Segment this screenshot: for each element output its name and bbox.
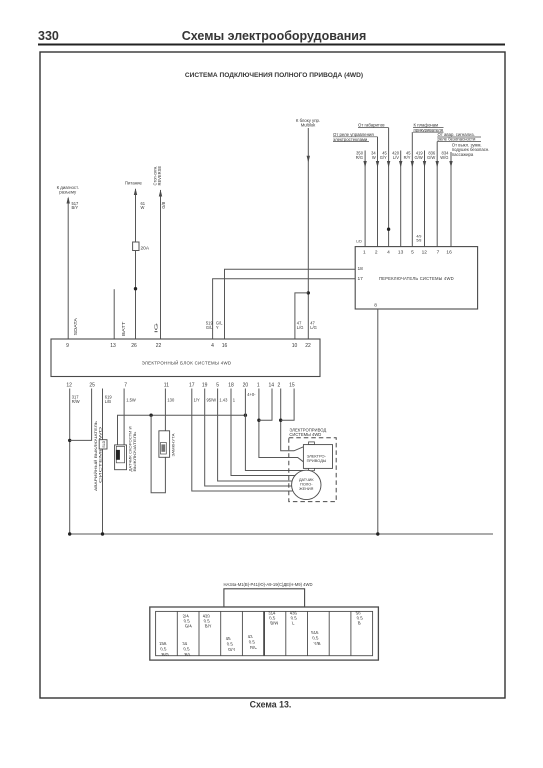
svg-text:9: 9 bbox=[66, 343, 69, 349]
ECU bottom pin 14 bbox=[269, 383, 275, 389]
svg-text:22: 22 bbox=[305, 343, 311, 349]
connector cell divider 3 bbox=[220, 611, 222, 655]
svg-text:BATT: BATT bbox=[121, 321, 126, 336]
schematic border frame bbox=[40, 52, 505, 698]
switch pin 1 bbox=[363, 250, 366, 256]
ECU bottom pin 19 bbox=[202, 383, 208, 389]
wire from 4WD switch pin18 to ECU pin16 bbox=[225, 269, 356, 339]
shield connector SLD box bbox=[99, 440, 107, 449]
connector cell divider 5 (thick) bbox=[263, 611, 265, 655]
wire pin9 SDATA (diagnostic) bbox=[67, 198, 69, 339]
svg-text:SDATA: SDATA bbox=[73, 317, 78, 336]
switch pin 17 bbox=[358, 276, 364, 282]
svg-text:Multilok: Multilok bbox=[301, 122, 316, 127]
caption Схема 13. bbox=[250, 700, 292, 710]
label: К диагност. разъему bbox=[57, 185, 79, 195]
wire to pin22 right (from control unit) bbox=[307, 128, 309, 339]
value label 130 (pin11) bbox=[167, 398, 175, 403]
svg-text:17: 17 bbox=[358, 276, 364, 282]
svg-text:5: 5 bbox=[411, 250, 414, 256]
svg-text:G/W: G/W bbox=[415, 155, 423, 160]
label: К блоку упр. Multilok bbox=[296, 118, 320, 128]
cell2 top value 2/4 0.5 G/4 bbox=[182, 614, 193, 629]
value label 834 W/G bbox=[440, 151, 449, 160]
wire ECU pin5 to position sensor bbox=[218, 389, 293, 482]
label: Стоп-сигнал REVERSE (rotated) bbox=[153, 166, 163, 186]
switch pin 4 bbox=[387, 250, 390, 256]
svg-text:26: 26 bbox=[131, 343, 137, 349]
arrow down on control unit wire bbox=[307, 156, 310, 163]
value label 317 R/W (pin12) bbox=[72, 395, 80, 404]
position sensor circle ДАТЧИК ПОЛОЖЕНИЯ bbox=[292, 470, 321, 499]
cell3 top value 420 0.5 B/Y bbox=[202, 614, 213, 629]
cell8 value 516 0.5 Y/B bbox=[311, 630, 322, 646]
svg-text:Y: Y bbox=[216, 325, 219, 330]
svg-text:W: W bbox=[372, 155, 376, 160]
wire ECU pin25 joins pin12 bbox=[70, 389, 92, 441]
wire F to switch pin12 bbox=[423, 151, 426, 247]
label ДАТЧИК СКОРОСТИ И ВЫКЛЮЧАТЕЛЬ (rotated) bbox=[129, 426, 138, 471]
svg-text:R/G: R/G bbox=[356, 155, 363, 160]
svg-text:5/8: 5/8 bbox=[416, 238, 421, 242]
switch pin 7 bbox=[437, 250, 440, 256]
arrow up wire pin22 bbox=[159, 190, 162, 197]
svg-text:ЖЕНИЯ: ЖЕНИЯ bbox=[299, 487, 314, 491]
junction dot bus/pin11 branch bbox=[149, 414, 152, 417]
svg-text:ПРИВОДЫ: ПРИВОДЫ bbox=[307, 458, 327, 463]
value label 519 G/L (pin4) bbox=[206, 321, 214, 330]
svg-text:95/W: 95/W bbox=[207, 398, 217, 403]
svg-text:Схема 13.: Схема 13. bbox=[250, 700, 292, 710]
value label 45 R/Y bbox=[404, 151, 412, 160]
junction dot bus/pin20 bbox=[244, 414, 247, 417]
pin 22 bbox=[156, 343, 162, 349]
switch pin 12 bbox=[422, 250, 428, 256]
svg-text:1: 1 bbox=[363, 250, 366, 256]
wire ECU pin18 to position sensor bbox=[231, 389, 295, 476]
ECU box ЭЛЕКТРОННЫЙ БЛОК СИСТЕМЫ 4WD bbox=[51, 339, 320, 377]
arrow up wire pin26 bbox=[134, 188, 137, 195]
junction dot wire C bbox=[387, 228, 390, 231]
svg-text:12: 12 bbox=[422, 250, 428, 256]
svg-text:7: 7 bbox=[437, 250, 440, 256]
junction dot on wire pin26 bbox=[134, 287, 137, 290]
switch pin 2 bbox=[375, 250, 378, 256]
connector cell divider 6 bbox=[285, 611, 287, 655]
connector inner frame bbox=[156, 611, 373, 655]
junction dot pin12/pin25 bbox=[68, 439, 71, 442]
svg-text:REVERSE: REVERSE bbox=[157, 166, 162, 186]
connector cell divider 9 bbox=[350, 611, 352, 655]
svg-text:W: W bbox=[141, 205, 145, 210]
svg-text:От габаритов: От габаритов bbox=[358, 123, 385, 128]
wire from 4WD switch pin17 to ECU pin4 bbox=[213, 279, 356, 339]
connector cell divider 7 bbox=[307, 611, 309, 655]
header: От выкл. зуммера подушек безопасн. пассажира bbox=[452, 143, 490, 157]
svg-text:4: 4 bbox=[387, 250, 390, 256]
fuse 20A bbox=[133, 242, 150, 252]
label: Питание bbox=[125, 181, 143, 186]
label АВАРИЙНЫЙ ВЫКЛЮЧАТЕЛЬ СИСТЕМЫ 4WD (rotated) bbox=[94, 420, 103, 491]
ECU bottom pin 15 bbox=[289, 383, 295, 389]
svg-text:L/G: L/G bbox=[297, 325, 304, 330]
svg-text:L/G: L/G bbox=[310, 325, 317, 330]
value label 419 G/W bbox=[415, 151, 424, 160]
svg-text:14: 14 bbox=[269, 383, 275, 389]
harness label above connector bbox=[224, 582, 313, 587]
page number 330 bbox=[38, 29, 59, 43]
value label 47 L/G (pin22) bbox=[310, 321, 317, 330]
svg-text:B/Y: B/Y bbox=[72, 205, 79, 210]
net label IG (rotated) bbox=[153, 322, 158, 333]
svg-text:1.5W: 1.5W bbox=[126, 398, 136, 403]
svg-text:19: 19 bbox=[202, 383, 208, 389]
svg-text:20A: 20A bbox=[141, 246, 150, 252]
header: От реле управления электростеклами bbox=[333, 132, 378, 142]
svg-text:ДАТЧИК: ДАТЧИК bbox=[299, 478, 314, 482]
svg-text:реле безопасности: реле безопасности bbox=[438, 137, 476, 142]
value label L/D near switch pin1 bbox=[356, 239, 362, 243]
svg-text:22: 22 bbox=[156, 343, 162, 349]
ECU bottom pin 20 bbox=[243, 383, 249, 389]
header: От габаритов bbox=[358, 123, 389, 128]
pin 26 bbox=[131, 343, 137, 349]
wire ECU pin19 to position sensor bbox=[205, 389, 292, 487]
svg-text:G/B: G/B bbox=[161, 201, 166, 208]
wire E to switch pin5 bbox=[411, 132, 414, 247]
switch pin 5 bbox=[411, 250, 414, 256]
bus wire (pin20/pin11 common) bbox=[118, 415, 246, 445]
cell5 value 43 0.5 R/L bbox=[247, 634, 258, 650]
value label 61 W bbox=[141, 201, 146, 210]
value label 34 W bbox=[371, 151, 376, 160]
svg-text:1/Y: 1/Y bbox=[194, 398, 200, 403]
svg-text:13: 13 bbox=[398, 250, 404, 256]
junction dot rail/switch pin8 bbox=[376, 532, 379, 535]
svg-text:пассажира: пассажира bbox=[452, 152, 474, 157]
wire D to switch pin13 bbox=[399, 151, 402, 247]
wire pin22 IG bbox=[160, 190, 162, 339]
wire ECU pin1 to actuator motor bbox=[259, 389, 304, 462]
wire branch to pin 10 bbox=[295, 293, 308, 339]
svg-text:2: 2 bbox=[375, 250, 378, 256]
ECU bottom pin 17 bbox=[189, 383, 195, 389]
svg-text:7: 7 bbox=[124, 383, 127, 389]
cell1 value 158 0.5 B/G bbox=[159, 641, 170, 657]
value label 350 R/G bbox=[356, 151, 364, 160]
label ЗАМКНУТА (rotated) bbox=[172, 433, 176, 457]
svg-text:IG: IG bbox=[153, 322, 158, 333]
value label G/L Y (pin16) bbox=[216, 321, 223, 330]
svg-text:Схемы электрооборудования: Схемы электрооборудования bbox=[182, 29, 367, 43]
value label 4/9 5/8 near switch pin12 bbox=[416, 234, 421, 242]
svg-text:АВАРИЙНЫЙ ВЫКЛЮЧАТЕЛЬ: АВАРИЙНЫЙ ВЫКЛЮЧАТЕЛЬ bbox=[94, 420, 98, 491]
svg-text:L/B: L/B bbox=[105, 399, 111, 404]
junction dot rail/shield bbox=[101, 532, 104, 535]
wire H to switch pin16 bbox=[449, 152, 452, 247]
switch box ПЕРЕКЛЮЧАТЕЛЬ СИСТЕМЫ 4WD bbox=[355, 247, 477, 309]
svg-text:ВЫКЛЮЧАТЕЛЬ: ВЫКЛЮЧАТЕЛЬ bbox=[133, 431, 137, 472]
svg-text:130: 130 bbox=[167, 398, 175, 403]
svg-text:18: 18 bbox=[358, 266, 364, 272]
connector cell divider 2 bbox=[198, 611, 200, 655]
connector outer shell bbox=[150, 607, 379, 660]
svg-text:W/G: W/G bbox=[440, 155, 448, 160]
wire ECU pin12 to ground rail bbox=[69, 389, 71, 535]
arrow up wire pin9 bbox=[67, 197, 70, 204]
wire A to switch pin1 bbox=[363, 151, 366, 247]
svg-text:17: 17 bbox=[189, 383, 195, 389]
value label 619 L/B bbox=[105, 395, 113, 404]
svg-text:ЭЛЕКТРОННЫЙ БЛОК СИСТЕМЫ 4WD: ЭЛЕКТРОННЫЙ БЛОК СИСТЕМЫ 4WD bbox=[142, 361, 232, 366]
connector cell divider 8 bbox=[328, 611, 330, 655]
svg-text:L/V: L/V bbox=[393, 155, 399, 160]
svg-text:Питание: Питание bbox=[125, 181, 143, 186]
value label 836 G/W bbox=[427, 151, 436, 160]
svg-text:G/Y: G/Y bbox=[380, 155, 387, 160]
ECU bottom pin 25 bbox=[89, 383, 95, 389]
net label BATT (rotated) bbox=[121, 321, 126, 336]
svg-text:2: 2 bbox=[278, 383, 281, 389]
svg-text:СИСТЕМЫ 4WD: СИСТЕМЫ 4WD bbox=[289, 432, 321, 437]
value label 1.5W (pin7) bbox=[126, 398, 136, 403]
wire ECU pin20 to position sensor bbox=[245, 389, 303, 471]
junction dot control unit wire bbox=[307, 291, 310, 294]
ground rail wire bbox=[70, 533, 493, 535]
wire pin26 power feed bbox=[135, 189, 137, 339]
page header title bbox=[182, 29, 367, 43]
cell7 top value 436 0.5 L bbox=[289, 611, 300, 626]
switch pin 16 bbox=[446, 250, 452, 256]
lock switch box ЗАМКНУТА bbox=[159, 431, 170, 458]
cell4 value 45 0.5 G/Y bbox=[225, 636, 236, 652]
svg-text:8: 8 bbox=[374, 303, 377, 309]
value label 420 L/V bbox=[392, 151, 400, 160]
svg-text:G/W: G/W bbox=[427, 155, 435, 160]
svg-text:18: 18 bbox=[228, 383, 234, 389]
schematic title bbox=[185, 72, 363, 79]
ECU bottom pin 7 bbox=[124, 383, 127, 389]
svg-text:25: 25 bbox=[89, 383, 95, 389]
wire ECU pin7 to speed sensor bbox=[123, 389, 125, 445]
svg-text:G/L: G/L bbox=[206, 325, 213, 330]
value label 1/Y (pin17) bbox=[194, 398, 200, 403]
ECU bottom pin 1 bbox=[257, 383, 260, 389]
net label SDATA (rotated) bbox=[73, 317, 78, 336]
pin 10 bbox=[292, 343, 298, 349]
wire shield SLD to ground rail bbox=[102, 389, 104, 535]
wire C to switch pin4 bbox=[387, 128, 390, 247]
ECU bottom pin 2 bbox=[278, 383, 281, 389]
svg-text:НА34а-М1(В)-Р41(Ю)-А9-19(С)ДЕ(: НА34а-М1(В)-Р41(Ю)-А9-19(С)ДЕ(Н-М9) 4WD bbox=[224, 582, 313, 587]
connector keying tab bbox=[224, 589, 305, 607]
actuator assembly dashed box bbox=[289, 438, 336, 502]
svg-text:330: 330 bbox=[38, 29, 59, 43]
wire pin13 BATT stub bbox=[113, 289, 115, 339]
svg-text:ПОЛО-: ПОЛО- bbox=[300, 483, 313, 487]
wire switch pin8 to ground rail bbox=[377, 309, 379, 534]
label ЭЛЕКТРОПРИВОД СИСТЕМЫ 4WD bbox=[289, 428, 326, 437]
cell2 value 34 0.5 B/L bbox=[182, 641, 192, 657]
wire ECU pin17 to position sensor bbox=[192, 389, 293, 492]
svg-text:СИСТЕМЫ 4WD: СИСТЕМЫ 4WD bbox=[99, 426, 103, 483]
junction dot pin1/pin14 bbox=[257, 419, 260, 422]
svg-text:16: 16 bbox=[222, 343, 228, 349]
value label 1 (pin18) bbox=[233, 398, 236, 403]
value label 45 G/Y bbox=[380, 151, 388, 160]
switch pin 8 bbox=[374, 303, 377, 309]
svg-text:4: 4 bbox=[211, 343, 214, 349]
connector cell divider 1 bbox=[176, 611, 178, 655]
svg-text:10: 10 bbox=[292, 343, 298, 349]
wire G to switch pin7 bbox=[436, 142, 439, 247]
svg-text:ДАТЧИК СКОРОСТИ И: ДАТЧИК СКОРОСТИ И bbox=[129, 426, 133, 471]
switch pin 13 bbox=[398, 250, 404, 256]
wire B to switch pin2 bbox=[376, 137, 379, 247]
value label 517 B/Y bbox=[72, 201, 80, 210]
header rule bbox=[38, 44, 505, 46]
svg-text:16: 16 bbox=[446, 250, 452, 256]
value label 95/W (pin19) bbox=[207, 398, 217, 403]
value label G/B (rotated) bbox=[161, 201, 166, 208]
svg-text:электростеклами: электростеклами bbox=[333, 137, 368, 142]
svg-text:R/Y: R/Y bbox=[404, 155, 411, 160]
svg-text:12: 12 bbox=[66, 383, 72, 389]
speed sensor box ДАТЧИК СКОРОСТИ bbox=[115, 445, 127, 470]
svg-text:B/Y: B/Y bbox=[204, 624, 212, 629]
value label 440 (pin20) bbox=[247, 392, 256, 397]
svg-text:ПЕРЕКЛЮЧАТЕЛЬ СИСТЕМЫ 4WD: ПЕРЕКЛЮЧАТЕЛЬ СИСТЕМЫ 4WD bbox=[379, 276, 454, 281]
svg-text:11: 11 bbox=[164, 383, 169, 389]
svg-text:разъему: разъему bbox=[59, 189, 77, 194]
svg-text:20: 20 bbox=[243, 383, 249, 389]
motor box ЭЛЕКТРОПРИВОДЫ bbox=[303, 442, 332, 471]
cell10 top value 50 0.5 B bbox=[355, 611, 365, 626]
cell6 top value 314 0.5 B/W bbox=[268, 611, 280, 626]
junction dot pin2/pin15 bbox=[279, 419, 282, 422]
connector cell divider 4 bbox=[241, 611, 243, 655]
ECU bottom pin 11 bbox=[164, 383, 169, 389]
svg-text:L/D: L/D bbox=[356, 239, 362, 243]
svg-text:R/W: R/W bbox=[72, 399, 80, 404]
wire ECU pin11 U-loop to bus bbox=[151, 389, 165, 493]
svg-text:1: 1 bbox=[257, 383, 260, 389]
junction dot rail/pin12 bbox=[68, 532, 71, 535]
value label 1.43 (pin5) bbox=[219, 398, 228, 403]
header: К плафонам прикуривателя bbox=[413, 123, 444, 133]
header: От авар. сигнализ. реле безопасности bbox=[437, 132, 481, 142]
wire ECU pin2 to actuator motor bbox=[281, 389, 304, 451]
svg-text:4+0-: 4+0- bbox=[247, 392, 256, 397]
pin 4 bbox=[211, 343, 214, 349]
svg-text:13: 13 bbox=[110, 343, 116, 349]
switch pin 18 bbox=[358, 266, 364, 272]
svg-text:1.43: 1.43 bbox=[219, 398, 228, 403]
ECU bottom pin 12 bbox=[66, 383, 72, 389]
wire ECU pin15 joins pin2 bbox=[281, 389, 294, 421]
value label 47 L/G (pin10) bbox=[297, 321, 304, 330]
wire ECU pin14 joins pin1 bbox=[259, 389, 272, 421]
pin 22 right bbox=[305, 343, 311, 349]
svg-text:СИСТЕМА ПОДКЛЮЧЕНИЯ ПОЛНОГО ПР: СИСТЕМА ПОДКЛЮЧЕНИЯ ПОЛНОГО ПРИВОДА (4WD… bbox=[185, 72, 363, 79]
pin 16 bbox=[222, 343, 228, 349]
ECU bottom pin 5 bbox=[216, 383, 219, 389]
svg-text:Y/B: Y/B bbox=[313, 641, 321, 646]
pin 9 bbox=[66, 343, 69, 349]
ECU bottom pin 18 bbox=[228, 383, 234, 389]
svg-text:5: 5 bbox=[216, 383, 219, 389]
svg-text:SLD: SLD bbox=[102, 440, 106, 447]
svg-text:15: 15 bbox=[289, 383, 295, 389]
svg-text:ЗАМКНУТА: ЗАМКНУТА bbox=[172, 433, 176, 457]
svg-text:G/Y: G/Y bbox=[227, 647, 236, 652]
pin 13 bbox=[110, 343, 116, 349]
